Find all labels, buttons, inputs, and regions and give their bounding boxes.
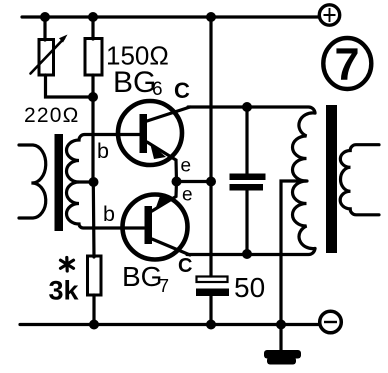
svg-text:220Ω: 220Ω xyxy=(24,104,80,127)
svg-text:BG: BG xyxy=(113,66,156,99)
svg-text:b: b xyxy=(103,202,115,226)
svg-text:C: C xyxy=(174,78,190,103)
svg-text:e: e xyxy=(182,185,193,206)
svg-text:7: 7 xyxy=(334,39,359,90)
svg-text:50: 50 xyxy=(234,272,265,303)
svg-text:7: 7 xyxy=(159,276,169,296)
svg-text:6: 6 xyxy=(152,79,163,100)
svg-text:b: b xyxy=(97,139,109,163)
svg-text:e: e xyxy=(181,156,192,177)
svg-text:C: C xyxy=(178,255,192,277)
svg-text:3k: 3k xyxy=(49,276,80,306)
svg-text:BG: BG xyxy=(122,261,162,292)
